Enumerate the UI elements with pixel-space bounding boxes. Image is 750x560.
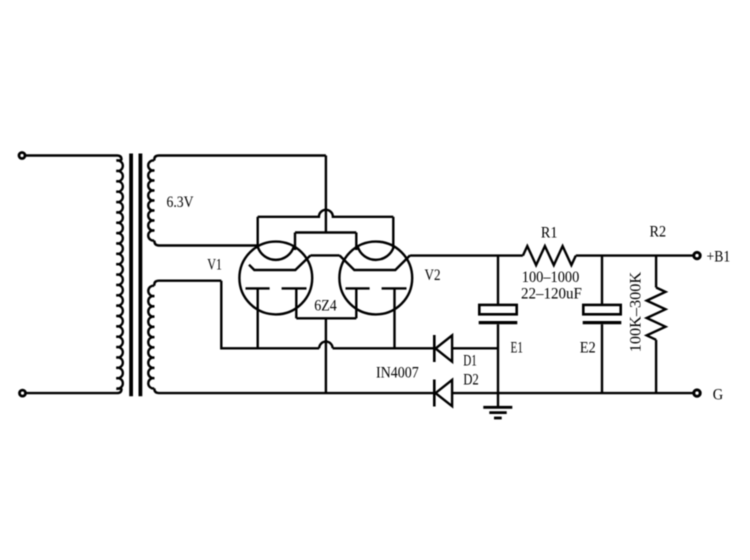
svg-text:D2: D2: [463, 371, 479, 389]
wire 6.3V top rail to centre vertical: [325, 156, 327, 233]
diode D2: [433, 380, 436, 407]
tube V2 cathode lead right: [393, 288, 395, 348]
tube V2 plate: [340, 255, 411, 270]
svg-text:V2: V2: [425, 266, 441, 284]
capacitor E1: [497, 256, 499, 305]
resistor R1: [523, 246, 576, 265]
svg-text:E2: E2: [580, 338, 596, 356]
transformer T1 secondary HV winding: [148, 286, 154, 389]
transformer T1 primary winding: [116, 160, 122, 388]
svg-text:100K–300K: 100K–300K: [627, 271, 645, 352]
ground: [497, 393, 499, 407]
transformer T1 secondary 6.3V filament winding: [148, 160, 154, 240]
svg-text:6.3V: 6.3V: [167, 193, 194, 211]
tube V2 heater arc: [358, 247, 394, 260]
capacitor E2: [601, 256, 603, 305]
wire plate link V1-V2: [311, 254, 340, 256]
svg-text:R1: R1: [541, 224, 558, 242]
svg-text:V1: V1: [207, 255, 222, 273]
tube V1 cathode dashes: [246, 287, 270, 289]
svg-text:G: G: [713, 385, 724, 403]
wire HV top to D1 line: [221, 281, 319, 349]
tube V2 envelope: [339, 242, 412, 315]
tube V1 cathode lead right: [295, 288, 297, 318]
resistor R2: [655, 256, 657, 288]
terminal G: [694, 390, 700, 396]
svg-text:E1: E1: [511, 338, 523, 356]
wire outer heater bus with hop: [258, 210, 394, 217]
svg-text:22–120uF: 22–120uF: [521, 284, 582, 302]
terminal P2 (primary input bottom): [20, 390, 26, 396]
tube V1 plate: [249, 255, 311, 270]
svg-text:IN4007: IN4007: [376, 364, 419, 382]
tube V1 cathode lead left: [257, 288, 259, 348]
svg-text:+B1: +B1: [707, 248, 731, 266]
svg-text:6Z4: 6Z4: [314, 297, 337, 315]
transformer T1 core: [129, 154, 133, 397]
tube V1 heater arc: [258, 247, 294, 260]
svg-text:R2: R2: [650, 222, 667, 240]
tube V2 cathode lead left: [355, 288, 357, 318]
tube V2 cathode dashes: [346, 287, 370, 289]
wire B+ rail: [410, 254, 523, 256]
wire cathode box bottom: [296, 317, 356, 319]
wire D1 line hop over centre stub: [319, 342, 332, 349]
terminal +B1: [694, 252, 700, 258]
terminal P1 (primary input top): [19, 153, 25, 159]
svg-text:D1: D1: [463, 352, 477, 370]
diode D1: [433, 335, 436, 362]
wire inner heater bus: [295, 231, 356, 233]
tube V1 envelope: [239, 242, 312, 315]
svg-text:100–1000: 100–1000: [522, 268, 580, 286]
wire bottom rail right: [452, 392, 693, 394]
wire centre stub to bottom rail: [325, 318, 327, 393]
